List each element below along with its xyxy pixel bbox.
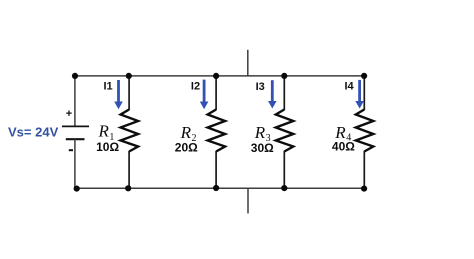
svg-text:Vs= 24V: Vs= 24V [8,125,59,140]
wire: R1 top lead [128,76,130,110]
label R2 value 20ohm [175,141,198,155]
label R3 [254,123,271,144]
wire: R1 bottom lead [128,151,130,188]
wire: R3 bottom lead [283,151,285,188]
current arrow I2 [200,80,209,110]
svg-text:I1: I1 [104,81,113,93]
wire: R2 bottom lead [215,151,217,188]
battery Vs plate negative [66,138,85,140]
current arrow I1 [114,80,123,109]
label R2 [180,123,197,144]
svg-text:30Ω: 30Ω [251,141,274,155]
label R4 value 40ohm [332,140,355,154]
resistor R4 [356,110,374,152]
label battery minus sign [69,149,73,151]
label battery plus sign [66,108,72,120]
label R1 [98,122,115,143]
resistor R1 [121,110,139,152]
svg-text:R: R [98,122,110,141]
svg-text:+: + [66,108,72,120]
label source voltage Vs= 24V [8,125,59,140]
node: bottom battery junction [74,186,80,192]
label R3 value 30ohm [251,141,274,155]
node: bottom R2 junction [213,185,219,191]
label R4 [334,123,351,144]
label I3 [256,81,265,93]
wire: R2 top lead [215,76,217,110]
label I1 [104,81,113,93]
node: top R2 junction [213,73,219,79]
node: top battery junction [72,73,78,79]
node: top R3 junction [281,73,287,79]
node: bottom R4 junction [361,186,367,192]
wire: battery bottom lead [74,139,76,188]
resistor R3 [276,110,294,152]
node: bottom R1 junction [125,185,131,191]
svg-text:R: R [180,123,192,142]
wire: R3 top lead [283,76,285,110]
wire: R4 bottom lead [363,151,365,188]
svg-text:I3: I3 [256,81,265,93]
wire: battery top lead [74,76,76,127]
label I4 [345,80,355,92]
node: top R1 junction [126,73,132,79]
svg-text:20Ω: 20Ω [175,141,198,155]
svg-text:R: R [254,123,266,142]
node: top R4 junction [361,73,367,79]
wire: top bus [75,75,364,77]
wire: bottom center stub [247,188,249,213]
label I2 [191,80,200,92]
svg-text:I4: I4 [345,80,355,92]
current arrow I4 [355,80,364,109]
wire: R4 top lead [363,76,365,110]
wire: bottom bus [76,187,364,189]
label R1 value 10ohm [96,140,119,154]
svg-text:40Ω: 40Ω [332,140,355,154]
battery Vs plate positive [62,125,89,127]
svg-text:10Ω: 10Ω [96,140,119,154]
current arrow I3 [268,80,277,108]
node: bottom R3 junction [281,185,287,191]
wire: top center stub [247,50,249,76]
svg-text:I2: I2 [191,80,200,92]
resistor R2 [208,110,226,152]
